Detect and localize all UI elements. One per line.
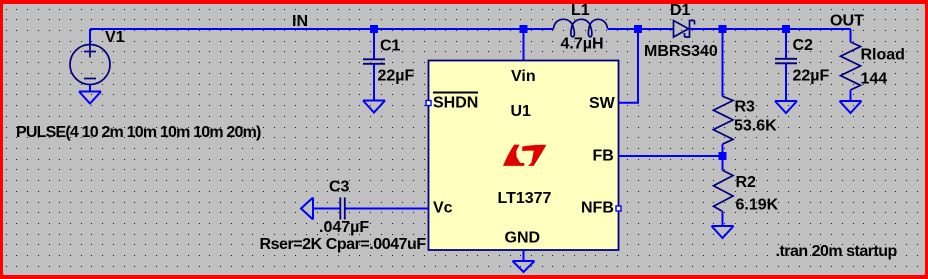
wire: R3 bottom lead [722, 144, 724, 156]
wire: R2 bottom lead [722, 211, 724, 226]
capacitor C2 [775, 59, 797, 64]
wire: FB net [619, 155, 723, 157]
svg-text:R2: R2 [736, 174, 757, 191]
capacitor C1 [363, 59, 385, 64]
diode D1 [674, 21, 695, 38]
svg-text:Vc: Vc [433, 200, 453, 217]
wire: R3 top lead [722, 29, 724, 96]
junction at Vin [520, 25, 528, 33]
svg-text:IN: IN [292, 13, 308, 30]
wire: C2 top lead [785, 29, 787, 59]
ground (R2) [712, 226, 734, 238]
svg-text:.tran 20m startup: .tran 20m startup [776, 243, 898, 260]
svg-text:53.6K: 53.6K [734, 118, 777, 135]
svg-text:U1: U1 [511, 103, 532, 120]
wire: rail L1 to D1 [608, 28, 674, 30]
inductor L1 [554, 19, 608, 37]
ground (C1) [363, 101, 385, 113]
svg-text:Vin: Vin [511, 68, 536, 85]
wire: Vc net [345, 208, 429, 210]
svg-text:C3: C3 [329, 178, 350, 195]
ground (Rload) [840, 101, 862, 113]
wire: R2 top lead [722, 156, 724, 170]
junction at C1 [370, 25, 378, 33]
svg-text:GND: GND [505, 230, 541, 247]
svg-text:SHDN: SHDN [433, 95, 478, 112]
ground (C2) [775, 101, 797, 113]
wire: Rload top lead [850, 29, 852, 42]
wire: C1 bottom lead [373, 64, 375, 101]
resistor R2 [714, 170, 734, 211]
svg-text:FB: FB [593, 148, 614, 165]
wire: SW riser [619, 29, 639, 103]
wire: Rload bottom lead [850, 90, 852, 101]
ground (V1) [79, 92, 101, 104]
svg-text:R3: R3 [735, 99, 756, 116]
resistor Rload [841, 42, 861, 90]
voltage source V1 [70, 45, 110, 85]
svg-text:MBRS340: MBRS340 [644, 43, 718, 60]
LT logo [503, 145, 546, 166]
svg-text:Rser=2K Cpar=.0047uF: Rser=2K Cpar=.0047uF [260, 236, 427, 253]
wire: C1 top lead [373, 29, 375, 59]
svg-text:L1: L1 [571, 2, 590, 19]
ground (U1 GND) [513, 261, 535, 272]
svg-text:144: 144 [861, 71, 888, 88]
wire: V1 bottom lead [89, 85, 91, 92]
wire: Vin lead [523, 29, 525, 61]
junction at SW riser [634, 25, 642, 33]
wire: main top rail IN to OUT [90, 28, 554, 30]
junction at R3/D1 [719, 25, 727, 33]
svg-text:OUT: OUT [830, 13, 864, 30]
wire: C2 bottom lead [785, 63, 787, 101]
wire: rail D1 to OUT [690, 28, 851, 30]
junction at FB [719, 152, 727, 160]
svg-text:D1: D1 [670, 2, 691, 19]
svg-text:22µF: 22µF [793, 68, 830, 85]
svg-text:.047µF: .047µF [319, 219, 369, 236]
svg-text:SW: SW [589, 95, 616, 112]
pin square NFB [616, 206, 621, 211]
svg-text:LT1377: LT1377 [498, 190, 552, 207]
svg-text:Rload: Rload [861, 47, 905, 64]
pin square SHDN [426, 101, 431, 106]
svg-text:C2: C2 [793, 37, 814, 54]
wire: V1 top lead [89, 29, 91, 45]
svg-text:PULSE(4 10 2m 10m 10m 10m 20m): PULSE(4 10 2m 10m 10m 10m 20m) [16, 124, 261, 141]
resistor R3 [713, 96, 733, 144]
svg-text:22µF: 22µF [378, 68, 415, 85]
svg-text:V1: V1 [105, 29, 125, 46]
svg-text:4.7µH: 4.7µH [561, 36, 604, 53]
wire: GND pin lead [523, 250, 525, 261]
svg-text:C1: C1 [380, 38, 401, 55]
junction at C2 [782, 25, 790, 33]
capacitor C3 [340, 198, 345, 220]
svg-text:NFB: NFB [581, 200, 614, 217]
op-amp U1 LT1377 box [429, 61, 619, 251]
ground (C3, pointing left) [301, 198, 313, 220]
wire: C3 left lead [313, 208, 340, 210]
svg-text:6.19K: 6.19K [736, 197, 779, 214]
